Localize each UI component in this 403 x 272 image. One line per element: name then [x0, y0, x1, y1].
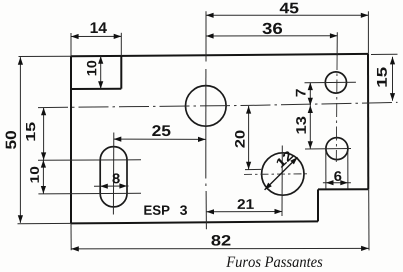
dimension 6 [323, 171, 351, 185]
extension line 82 right [368, 189, 370, 250]
dimension 20 [235, 106, 251, 169]
extension line 50 bottom [18, 222, 72, 224]
horizontal centerline top-right circle / ext 7 [305, 81, 356, 83]
extension line slot bottom arc center [38, 192, 141, 195]
main horizontal centerline [38, 102, 398, 107]
plate right edge [367, 54, 369, 189]
slot vertical centerline [112, 133, 114, 215]
top-left step right edge [120, 56, 122, 89]
dimension 12 diameter diagonal [265, 150, 298, 190]
dimension 36 [206, 23, 338, 39]
extension line 6 right [347, 150, 349, 189]
extension line 14 left [70, 33, 72, 56]
extension line 6 left [325, 150, 327, 189]
plate bottom edge [71, 221, 318, 223]
dimension 14 [71, 22, 121, 39]
label ESP 3 [144, 205, 187, 215]
dimension 15 right [377, 57, 395, 101]
extension line 14 right [120, 33, 122, 56]
dimension 82 [71, 235, 369, 251]
dimension 50 [6, 57, 23, 223]
dimension 45 [206, 3, 368, 18]
top-left step bottom edge [71, 88, 121, 90]
dimension 21 [206, 199, 282, 214]
slot obround [100, 147, 127, 207]
hole big circle [186, 86, 227, 127]
vertical centerline big circle and ext for 45 36 25 21 [205, 11, 208, 229]
hole bottom-right circle [326, 138, 348, 160]
vertical centerline top-right circle and ext 36 [336, 32, 337, 162]
dimension 7 [296, 83, 313, 106]
label Furos Passantes [226, 257, 322, 267]
extension line slot top arc center [38, 159, 141, 161]
extension line 15 right top [371, 53, 398, 55]
dimension 15 left [26, 108, 46, 160]
dimension 10 top-left step [87, 56, 103, 89]
plate bottom-right step left edge [317, 189, 319, 221]
vertical centerline 12-circle / ext 21 [281, 146, 283, 217]
dimension 10 left slot [30, 160, 46, 194]
hole top-right circle [325, 72, 346, 93]
extension line 20 bottom [245, 168, 261, 170]
plate left edge [70, 56, 72, 223]
horizontal centerline 12-circle [244, 173, 310, 176]
dimension 25 [114, 125, 206, 142]
plate bottom-right step top edge [318, 188, 368, 190]
plate top edge [71, 54, 368, 56]
horizontal centerline bottom-right circle / ext 13 [305, 148, 351, 151]
extension line 50 top [19, 55, 72, 57]
hole 12-circle [262, 153, 304, 195]
dimension 8 slot width [94, 173, 129, 188]
dimension 13 [296, 105, 313, 148]
extension line 82 left [70, 223, 72, 250]
extension line 45/82 right top [367, 11, 369, 54]
